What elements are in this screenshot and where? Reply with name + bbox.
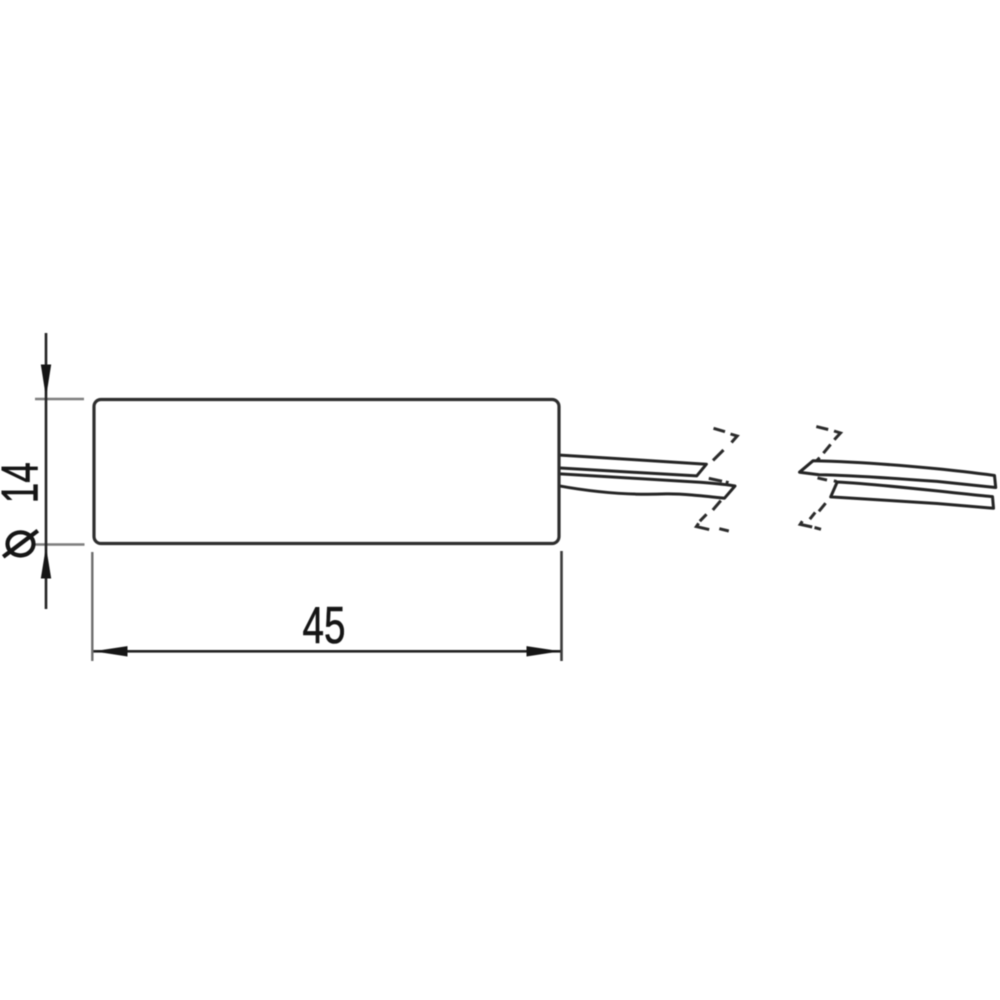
svg-text:14: 14 bbox=[0, 462, 50, 503]
svg-text:45: 45 bbox=[303, 597, 346, 655]
